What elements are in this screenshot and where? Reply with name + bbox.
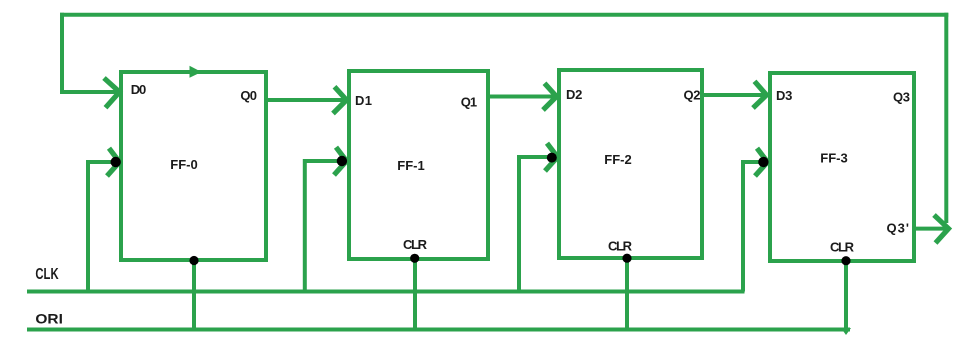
- wire FF-3 clock branch: [743, 162, 763, 292]
- wire Q0 to D1: [266, 98, 344, 102]
- wire FF-2 CLR drop: [625, 258, 629, 330]
- arrowhead FF-0 clock: [107, 148, 120, 176]
- wire feedback into D0: [60, 90, 117, 94]
- svg-text:CLR: CLR: [830, 240, 855, 255]
- junction dot FF-2 clock: [547, 153, 557, 163]
- svg-text:FF-1: FF-1: [397, 158, 424, 173]
- svg-text:FF-3: FF-3: [820, 151, 847, 166]
- flip-flop FF-0: [121, 72, 266, 260]
- junction dot FF-1 CLR: [410, 254, 419, 263]
- wire feedback left vertical: [60, 13, 64, 92]
- flip-flop FF-1: [349, 71, 488, 259]
- wire FF-1 CLR drop: [413, 258, 417, 330]
- arrowhead FF-2 clock: [545, 143, 558, 171]
- svg-text:Q3: Q3: [893, 90, 910, 105]
- svg-text:Q2: Q2: [684, 88, 701, 103]
- arrowhead into D3: [753, 81, 767, 108]
- svg-text:ORI: ORI: [35, 311, 63, 327]
- svg-text:Q1: Q1: [461, 95, 477, 110]
- junction dot FF-0 CLR: [189, 256, 198, 265]
- svg-text:D0: D0: [131, 82, 146, 97]
- wire Q3' output: [914, 227, 945, 231]
- arrowhead Q3' feedback: [934, 215, 949, 243]
- wire ORI bus: [27, 328, 850, 332]
- junction dot FF-1 clock: [337, 156, 347, 166]
- wire feedback top horizontal: [60, 13, 948, 17]
- svg-text:CLK: CLK: [35, 266, 59, 283]
- svg-text:Q3': Q3': [887, 221, 910, 236]
- svg-text:Q0: Q0: [240, 88, 257, 103]
- flip-flop FF-3: [770, 73, 914, 261]
- junction dot FF-3 clock: [758, 157, 768, 167]
- svg-text:FF-0: FF-0: [170, 157, 197, 172]
- arrowhead into D2: [543, 83, 557, 110]
- wire FF-1 clock branch: [305, 161, 342, 292]
- wire Q2 to D3: [702, 93, 764, 97]
- wire CLK bus: [27, 290, 745, 294]
- junction dot FF-2 CLR: [622, 254, 631, 263]
- svg-text:CLR: CLR: [608, 239, 633, 254]
- wire FF-0 clock branch: [88, 162, 116, 292]
- wire FF-2 clock branch: [519, 157, 553, 292]
- wire Q1 to D2: [488, 95, 554, 99]
- arrowhead FF-1 clock: [334, 147, 347, 175]
- svg-text:D2: D2: [566, 87, 582, 102]
- svg-text:D1: D1: [355, 93, 372, 108]
- junction dot FF-0 clock: [111, 157, 121, 167]
- svg-text:CLR: CLR: [403, 237, 428, 252]
- svg-text:FF-2: FF-2: [604, 152, 631, 167]
- arrowhead into D0: [104, 78, 120, 108]
- arrowhead FF-3 clock: [755, 148, 768, 176]
- flip-flop FF-2: [559, 70, 702, 258]
- arrow marker on FF-0 top edge: [190, 66, 202, 78]
- junction dot FF-3 CLR: [841, 256, 850, 265]
- wire FF-3 CLR drop: [844, 260, 848, 331]
- wire FF-0 CLR drop: [192, 260, 196, 330]
- wire feedback right vertical: [944, 13, 948, 223]
- arrowhead into D1: [333, 87, 347, 114]
- svg-text:D3: D3: [776, 88, 792, 103]
- arrow marker ORI end: [841, 328, 851, 335]
